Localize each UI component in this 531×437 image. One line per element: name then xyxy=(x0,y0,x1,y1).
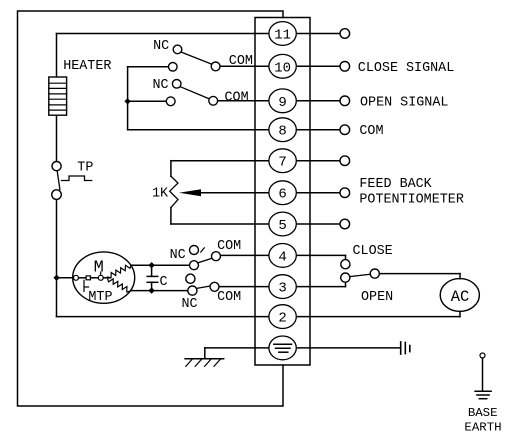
svg-text:M: M xyxy=(94,259,104,278)
svg-text:FEED BACK: FEED BACK xyxy=(359,177,432,192)
svg-text:AC: AC xyxy=(451,288,470,306)
svg-text:11: 11 xyxy=(274,28,291,44)
svg-text:COM: COM xyxy=(217,290,241,305)
svg-text:OPEN SIGNAL: OPEN SIGNAL xyxy=(360,95,448,110)
svg-text:NC: NC xyxy=(182,297,198,312)
svg-text:OPEN: OPEN xyxy=(361,290,393,305)
svg-text:TP: TP xyxy=(77,160,93,175)
svg-text:9: 9 xyxy=(278,95,286,111)
svg-text:NC: NC xyxy=(153,39,169,54)
svg-text:4: 4 xyxy=(278,249,286,265)
svg-text:NC: NC xyxy=(170,248,186,263)
svg-text:7: 7 xyxy=(278,155,286,171)
svg-text:1K: 1K xyxy=(152,187,169,202)
svg-text:MTP: MTP xyxy=(88,290,112,305)
svg-text:EARTH: EARTH xyxy=(464,421,501,435)
svg-text:8: 8 xyxy=(278,124,286,140)
svg-text:HEATER: HEATER xyxy=(63,59,111,74)
svg-text:COM: COM xyxy=(217,239,241,254)
svg-text:COM: COM xyxy=(359,124,383,139)
svg-text:5: 5 xyxy=(278,218,286,234)
svg-text:6: 6 xyxy=(278,187,286,203)
svg-text:COM: COM xyxy=(225,91,249,106)
svg-text:CLOSE SIGNAL: CLOSE SIGNAL xyxy=(358,61,454,76)
svg-text:NC: NC xyxy=(153,78,169,93)
svg-text:BASE: BASE xyxy=(468,406,498,420)
svg-text:10: 10 xyxy=(274,60,291,76)
svg-text:COM: COM xyxy=(229,54,253,69)
svg-text:POTENTIOMETER: POTENTIOMETER xyxy=(359,193,463,208)
svg-text:2: 2 xyxy=(278,311,286,327)
svg-text:3: 3 xyxy=(278,281,286,297)
svg-text:CLOSE: CLOSE xyxy=(353,244,393,259)
svg-text:C: C xyxy=(160,275,168,290)
